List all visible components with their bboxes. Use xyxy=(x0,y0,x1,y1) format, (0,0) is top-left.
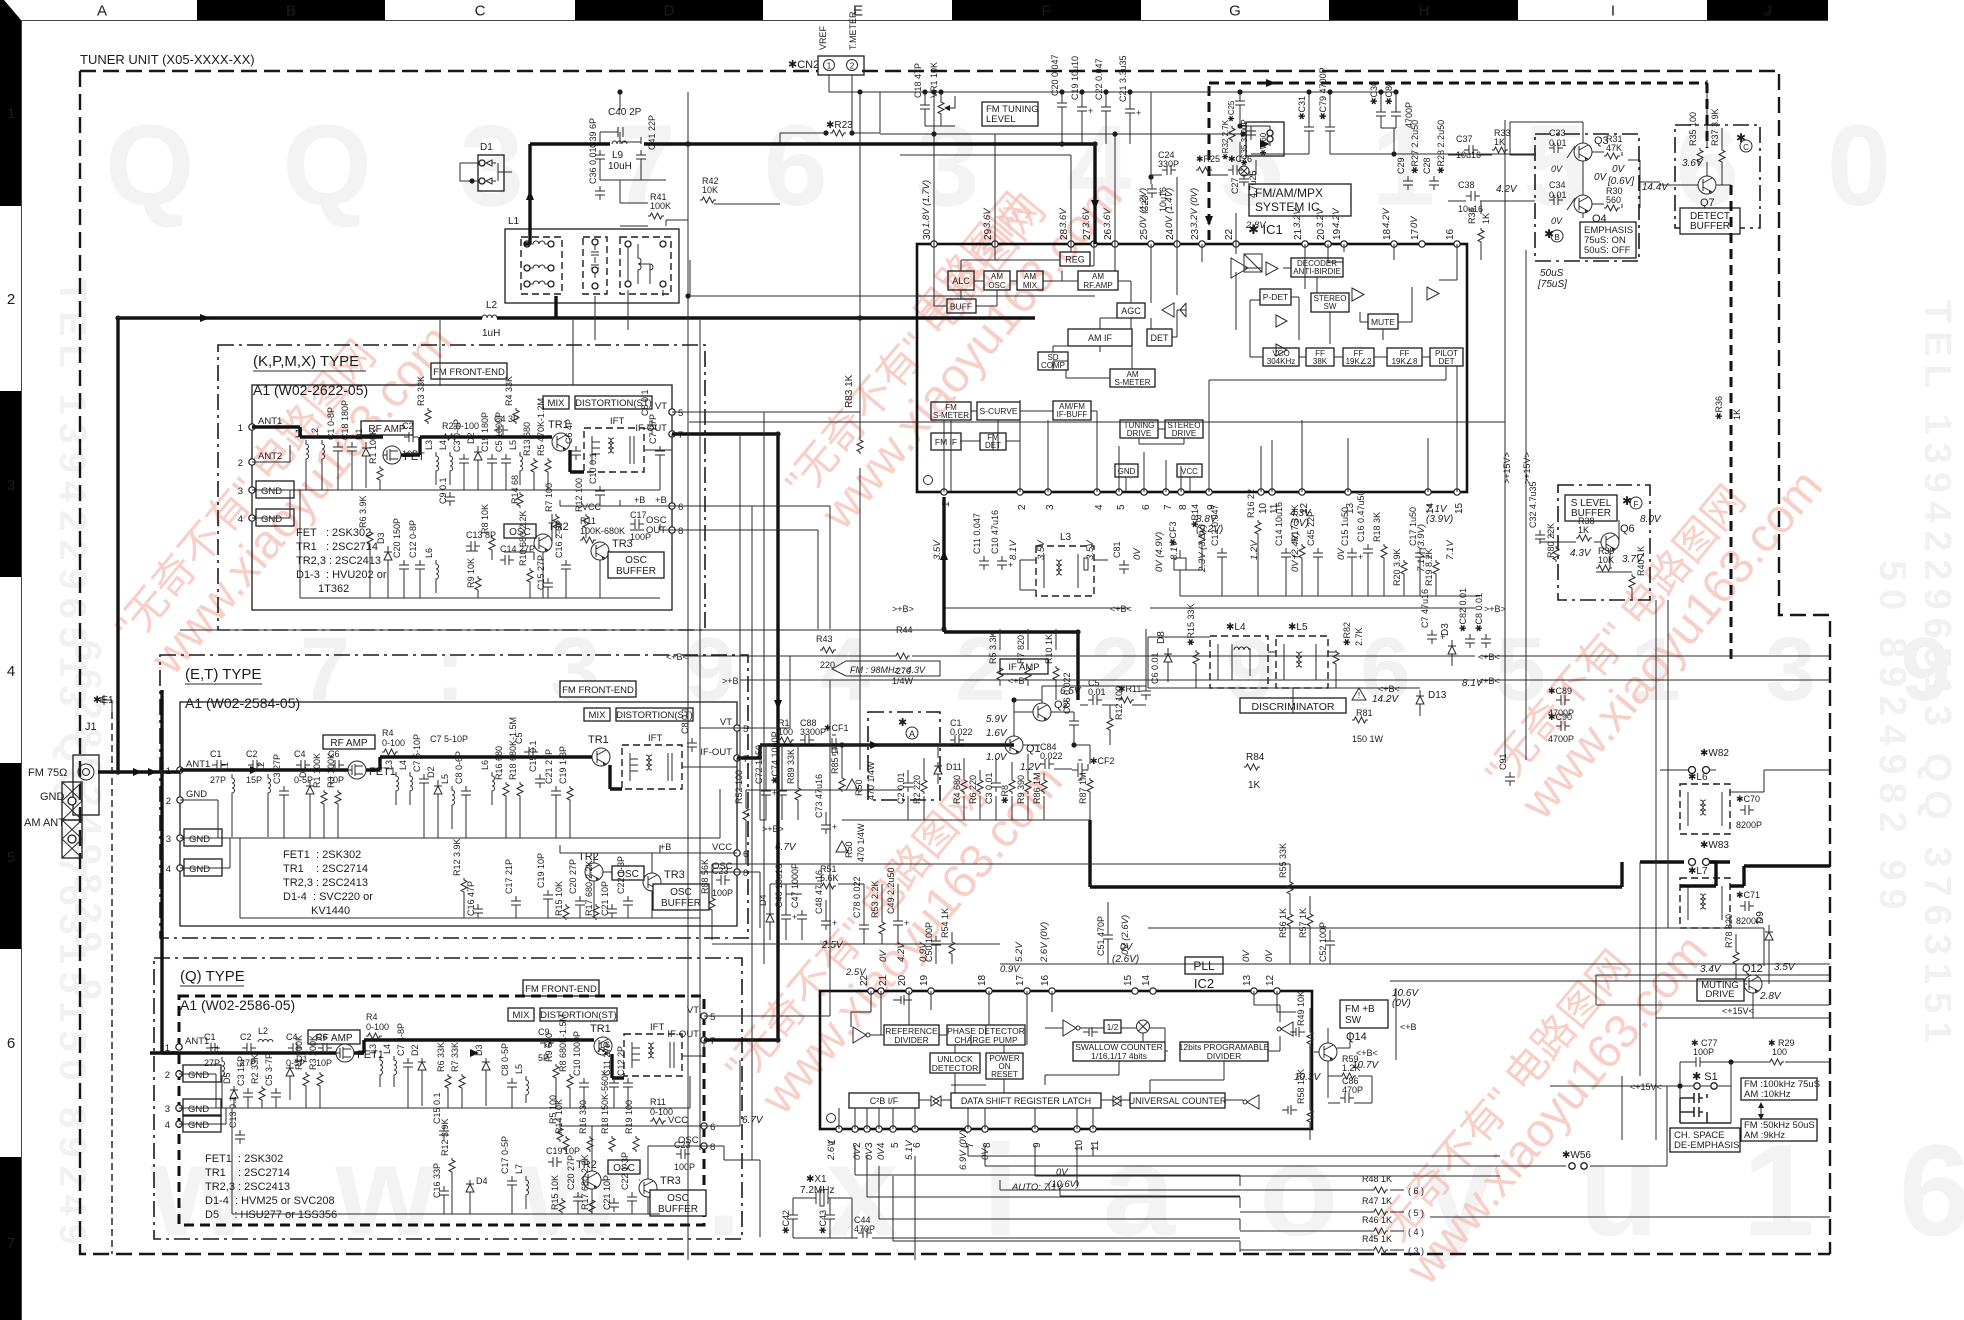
resistor R5 3.3K xyxy=(988,631,1003,682)
GND crossed connector xyxy=(62,782,82,820)
svg-text:4: 4 xyxy=(1094,504,1105,510)
filter CF2 xyxy=(1072,756,1115,780)
pin 2 xyxy=(852,1126,858,1132)
FM S-METER block xyxy=(931,402,971,420)
svg-text:C8 0-6P: C8 0-6P xyxy=(454,751,464,784)
IC1 internal blocks xyxy=(931,244,1463,492)
pin 16 xyxy=(1454,241,1460,247)
svg-text:✱C89: ✱C89 xyxy=(1548,686,1572,696)
svg-text:J1: J1 xyxy=(85,721,97,733)
resistor R19 1-3P xyxy=(558,746,573,838)
capacitor C6 10P xyxy=(328,749,344,785)
svg-text:0.022: 0.022 xyxy=(1040,751,1063,761)
svg-text:GND: GND xyxy=(188,1104,209,1115)
svg-text:470P: 470P xyxy=(854,1224,875,1234)
resistor R1 100K xyxy=(294,1035,309,1108)
amp triangle A6 xyxy=(1427,287,1439,300)
svg-text:D5: D5 xyxy=(222,1072,232,1084)
C7 47u16 xyxy=(1420,589,1445,644)
s level wires xyxy=(1540,520,1632,600)
svg-text:7: 7 xyxy=(7,1235,15,1252)
capacitor C5 3-7P xyxy=(264,1053,281,1108)
capacitor C3 15P xyxy=(236,1056,253,1108)
svg-text:L3: L3 xyxy=(424,440,434,450)
svg-text:✱C8 0.01: ✱C8 0.01 xyxy=(1474,593,1484,632)
transistor TR3 xyxy=(639,1179,657,1197)
svg-text:C²B I/F: C²B I/F xyxy=(870,1096,899,1106)
svg-text:C29: C29 xyxy=(1396,157,1406,174)
svg-text:100P: 100P xyxy=(1693,1047,1714,1057)
capacitor C42 xyxy=(781,1210,798,1234)
capacitor C3 27P xyxy=(272,754,289,838)
svg-text:0V: 0V xyxy=(878,949,889,962)
svg-text:R11: R11 xyxy=(650,1097,666,1107)
svg-text:R40 1K: R40 1K xyxy=(1636,546,1646,576)
svg-text:AM IF: AM IF xyxy=(1088,333,1113,343)
svg-text:14: 14 xyxy=(1141,974,1152,986)
svg-text:C49 2.2u50: C49 2.2u50 xyxy=(886,867,896,914)
svg-text:38K: 38K xyxy=(1313,357,1328,366)
diode D1 xyxy=(354,428,370,488)
svg-text:C19: C19 xyxy=(546,1146,563,1156)
capacitor C86 470P xyxy=(1340,1076,1363,1103)
svg-text:VT: VT xyxy=(655,401,667,412)
svg-text:AM :9kHz: AM :9kHz xyxy=(1744,1130,1785,1141)
svg-text:R5 3.3K: R5 3.3K xyxy=(988,631,998,664)
capacitor C32 4.7u35 xyxy=(1528,481,1553,544)
svg-text:C1 0-8P: C1 0-8P xyxy=(326,407,336,440)
svg-text:OSC: OSC xyxy=(670,887,692,898)
svg-text:29: 29 xyxy=(983,228,994,240)
svg-text:R52 100: R52 100 xyxy=(734,770,744,804)
svg-text:5: 5 xyxy=(710,1012,715,1023)
svg-text:C40 2P: C40 2P xyxy=(608,107,642,118)
svg-text:C23: C23 xyxy=(1140,195,1150,212)
svg-text:4: 4 xyxy=(7,663,15,680)
svg-text:4.2V: 4.2V xyxy=(1496,184,1518,195)
pin 5 xyxy=(1116,489,1122,495)
signal wires xyxy=(180,757,622,789)
svg-text:L7: L7 xyxy=(514,1164,524,1174)
svg-text:100P: 100P xyxy=(630,532,651,542)
arrows between boxes xyxy=(1760,1106,1762,1116)
UNLOCK DETECTOR block xyxy=(930,1053,980,1073)
pin 4 xyxy=(876,1126,882,1132)
C90 4700P xyxy=(1548,712,1574,744)
svg-text:3: 3 xyxy=(7,477,15,494)
svg-text:✱: ✱ xyxy=(898,717,907,729)
warning R50 xyxy=(846,779,858,790)
capacitor C17 100P xyxy=(630,510,651,542)
svg-text:0V: 0V xyxy=(1612,164,1626,175)
dashed signal line to detect buffer xyxy=(1209,83,1707,240)
resistor R43 220 xyxy=(816,634,836,670)
svg-text:MIX: MIX xyxy=(589,710,607,721)
svg-text:FM FRONT-END: FM FRONT-END xyxy=(525,984,597,995)
AGC block xyxy=(1117,303,1145,318)
mosfet symbols xyxy=(1083,1027,1098,1037)
svg-text:LEVEL: LEVEL xyxy=(986,114,1016,125)
resistor R11 100K-680K xyxy=(580,516,625,543)
svg-text:ALC: ALC xyxy=(952,276,970,286)
svg-text:0V: 0V xyxy=(1120,942,1134,953)
diode D1 xyxy=(286,1054,308,1100)
svg-text:CHARGE PUMP: CHARGE PUMP xyxy=(954,1035,1018,1045)
svg-text:1/4W: 1/4W xyxy=(892,676,914,686)
svg-text:R9 10K: R9 10K xyxy=(466,558,476,588)
svg-text:3.6V: 3.6V xyxy=(1102,207,1113,228)
DISTORTION(ST) label xyxy=(616,708,693,721)
svg-text:R15 10K: R15 10K xyxy=(550,1175,560,1210)
pin 13 xyxy=(1251,988,1257,994)
svg-text:RF.AMP: RF.AMP xyxy=(1083,281,1112,290)
svg-text:26: 26 xyxy=(1103,228,1114,240)
svg-text:C4: C4 xyxy=(294,749,306,759)
svg-text:L3: L3 xyxy=(368,1044,378,1054)
svg-text:R14 68: R14 68 xyxy=(510,475,520,504)
svg-text:ANTI-BIRDIE: ANTI-BIRDIE xyxy=(1293,267,1341,276)
svg-text:R17 680-2.2K: R17 680-2.2K xyxy=(584,860,594,916)
svg-text:R18 680K-1.5M: R18 680K-1.5M xyxy=(508,717,518,780)
svg-text:3.4V: 3.4V xyxy=(1700,964,1722,975)
svg-text:8: 8 xyxy=(678,526,683,537)
svg-text:2: 2 xyxy=(1017,504,1028,510)
svg-text:19K∠2: 19K∠2 xyxy=(1346,357,1372,366)
OSC label xyxy=(612,866,644,880)
inverter T1 xyxy=(853,1027,870,1043)
svg-text:P-DET: P-DET xyxy=(1263,292,1289,302)
svg-text:20: 20 xyxy=(1316,228,1327,240)
svg-text:10P: 10P xyxy=(316,1058,332,1068)
pin 7 xyxy=(965,1126,971,1132)
svg-text:(K,P,M,X) TYPE: (K,P,M,X) TYPE xyxy=(253,353,359,370)
svg-text:3.5V: 3.5V xyxy=(1036,539,1047,560)
svg-text:R10 680-2.2K: R10 680-2.2K xyxy=(518,510,528,566)
transistor TR1 xyxy=(592,748,610,766)
svg-text:4.7u25: 4.7u25 xyxy=(1248,170,1258,198)
svg-text:9: 9 xyxy=(1032,1142,1043,1148)
VCO 304KHz block xyxy=(1263,348,1299,366)
svg-text:✱: ✱ xyxy=(1544,227,1554,241)
svg-text:(3.9V): (3.9V) xyxy=(1426,514,1453,525)
resistor R6 3.9K xyxy=(358,495,373,598)
signal wires xyxy=(150,1040,624,1078)
resistor R15 10K xyxy=(550,1175,565,1214)
VCC +B line xyxy=(560,845,737,853)
svg-text:✱C25: ✱C25 xyxy=(1227,100,1236,122)
OSC label xyxy=(608,1160,640,1174)
pin 22 xyxy=(868,988,874,994)
C26 xyxy=(1228,154,1252,175)
IF AMP label xyxy=(1000,659,1048,674)
svg-text:L1: L1 xyxy=(294,428,304,438)
svg-text:R57 1K: R57 1K xyxy=(1298,908,1308,938)
svg-text:BUFF: BUFF xyxy=(950,302,972,312)
svg-text:GND: GND xyxy=(1118,467,1136,476)
capacitor C19 10u10 xyxy=(1070,56,1093,116)
svg-text:0.01: 0.01 xyxy=(1088,687,1106,697)
resistor R7 820 xyxy=(1016,635,1031,682)
pin 9 xyxy=(1206,489,1212,495)
pin VT 5 xyxy=(669,409,675,415)
pin 3 GND xyxy=(249,487,255,493)
resistor R17 680-2.2K xyxy=(580,1154,595,1214)
svg-text:( 5 ): ( 5 ) xyxy=(1408,1208,1424,1218)
capacitor C5 1000P inline xyxy=(514,732,538,757)
svg-text:R87 1M: R87 1M xyxy=(1078,772,1088,804)
inductor L3 xyxy=(424,440,439,485)
svg-text:0V: 0V xyxy=(1594,172,1608,183)
transistor TR2 xyxy=(585,863,603,881)
resistor R12 100 xyxy=(1107,686,1124,732)
svg-text:2: 2 xyxy=(7,291,15,308)
svg-text:C12 2P: C12 2P xyxy=(616,1046,626,1076)
svg-text:5.9V: 5.9V xyxy=(986,714,1008,725)
R51 5.6K xyxy=(820,864,839,889)
pin IF-OUT 7 xyxy=(701,1037,707,1043)
resistor R5 470K-1.2M xyxy=(536,398,551,490)
svg-text:C48 47u16: C48 47u16 xyxy=(814,870,824,914)
capacitor C15 27P xyxy=(536,555,553,598)
inverter T2 xyxy=(1063,1020,1080,1036)
resistor R46 1K xyxy=(1362,1215,1392,1234)
svg-text:1K: 1K xyxy=(1248,780,1261,791)
svg-text:R1 100K: R1 100K xyxy=(294,1035,304,1070)
svg-text:100P: 100P xyxy=(674,1162,695,1172)
svg-text:( 6 ): ( 6 ) xyxy=(1408,1186,1424,1196)
svg-text:2.8V: 2.8V xyxy=(1759,991,1782,1002)
svg-text:15: 15 xyxy=(1454,502,1465,514)
svg-text:3: 3 xyxy=(166,834,171,845)
Q IF-OUT joins vertical bus xyxy=(775,1037,780,1042)
svg-text:VR1 10K: VR1 10K xyxy=(929,62,939,98)
inductor L2 xyxy=(256,762,271,837)
pin 19 xyxy=(1341,241,1347,247)
AUTO label wire xyxy=(1000,1180,1240,1190)
C51 470P xyxy=(1096,916,1113,956)
svg-text:C20 27P: C20 27P xyxy=(568,859,578,894)
C74 1000P xyxy=(770,731,787,800)
svg-text:IFT: IFT xyxy=(650,1022,664,1033)
svg-text:5: 5 xyxy=(678,408,683,419)
svg-text:5: 5 xyxy=(7,849,15,866)
FM FRONT-END label xyxy=(523,980,599,996)
capacitor C21 10P xyxy=(600,881,617,918)
pin 17 xyxy=(1419,241,1425,247)
svg-text:S-METER: S-METER xyxy=(933,411,969,420)
capacitor C21 10P xyxy=(602,1175,619,1212)
svg-text:BUFFER: BUFFER xyxy=(661,898,701,909)
svg-text:L9: L9 xyxy=(612,150,624,161)
svg-text:F: F xyxy=(1634,500,1639,509)
resistor R42 10K xyxy=(700,176,719,203)
svg-text:5: 5 xyxy=(743,724,748,735)
RF AMP label xyxy=(308,1030,360,1044)
svg-text:1.2K: 1.2K xyxy=(1342,1063,1361,1073)
capacitor C16 47P xyxy=(466,881,483,918)
svg-text:R5 470K-1.2M: R5 470K-1.2M xyxy=(536,398,546,456)
FM 50kHz box xyxy=(1741,1119,1817,1141)
diode D2 xyxy=(426,766,442,838)
svg-text:S-CURVE: S-CURVE xyxy=(979,406,1017,416)
resistor R3 33K xyxy=(416,376,431,424)
svg-text:GND: GND xyxy=(186,789,207,800)
svg-text:R80 22K: R80 22K xyxy=(1546,523,1556,558)
resistor R18 680K-1.5M xyxy=(508,717,523,838)
IC1 FM/AM/MPX SYSTEM IC label xyxy=(1249,184,1351,216)
svg-text:R18 3K: R18 3K xyxy=(1372,512,1382,542)
R89 33K xyxy=(786,749,801,802)
pin 17 xyxy=(1024,988,1030,994)
svg-text:L3: L3 xyxy=(384,760,394,770)
capacitor C15 0.1 xyxy=(528,740,545,788)
svg-text:27P: 27P xyxy=(204,1058,220,1068)
R87 1M xyxy=(1078,772,1093,804)
svg-text:C28: C28 xyxy=(1422,157,1432,174)
svg-text:D11: D11 xyxy=(946,762,962,772)
svg-text:47K: 47K xyxy=(1606,143,1622,153)
C38 10u16 xyxy=(1458,180,1483,214)
svg-text:(0V): (0V) xyxy=(1290,518,1309,529)
C28 R28 2.2u50 xyxy=(1422,120,1446,190)
FM FRONT-END label xyxy=(560,681,636,697)
svg-text:14.2V: 14.2V xyxy=(1372,694,1399,705)
second feed vertical thick xyxy=(162,690,179,1053)
capacitor C18 180P xyxy=(340,400,357,490)
svg-text:R84: R84 xyxy=(1246,752,1265,763)
capacitor C77 100P xyxy=(1691,1038,1718,1067)
IC2 body xyxy=(820,991,1312,1129)
OSC BUFFER label xyxy=(653,884,709,910)
svg-text:C3 0.01: C3 0.01 xyxy=(984,772,994,804)
pin 4 GND xyxy=(249,515,255,521)
pin 5 xyxy=(890,1126,896,1132)
pin 29 xyxy=(992,241,998,247)
DISCRIMINATOR label xyxy=(1240,698,1346,713)
svg-text:DRIVE: DRIVE xyxy=(1172,429,1196,438)
svg-text:R6 220: R6 220 xyxy=(968,775,978,804)
svg-text:D1: D1 xyxy=(298,766,308,778)
svg-text:DETECTOR: DETECTOR xyxy=(932,1063,979,1073)
warning triangle R50 xyxy=(836,841,848,852)
svg-text:PLL: PLL xyxy=(1193,959,1215,973)
STEREO SW block xyxy=(1311,293,1349,312)
svg-text:C50 100P: C50 100P xyxy=(924,922,934,962)
svg-text:R19 100: R19 100 xyxy=(624,1100,634,1134)
svg-text:+: + xyxy=(832,918,837,928)
svg-text:24: 24 xyxy=(1165,228,1176,240)
svg-text:DET: DET xyxy=(1151,333,1170,343)
svg-text:TR1: TR1 xyxy=(588,734,609,746)
TUNING DRIVE block xyxy=(1120,420,1158,438)
svg-text:Q14: Q14 xyxy=(1346,1031,1367,1043)
svg-text:R49 10K: R49 10K xyxy=(1296,991,1306,1026)
svg-text:1K: 1K xyxy=(1494,137,1505,147)
pin 21 xyxy=(1302,241,1308,247)
svg-text:GND: GND xyxy=(40,791,65,803)
resistor R2 0-100 top xyxy=(430,734,468,744)
C11 0.047 xyxy=(972,513,989,570)
svg-text:R4 680: R4 680 xyxy=(952,775,962,804)
pin 6 xyxy=(1141,489,1147,495)
svg-text:R7 100: R7 100 xyxy=(544,483,554,512)
pin 14 xyxy=(1425,489,1431,495)
svg-text:TR3: TR3 xyxy=(660,1175,681,1187)
svg-text:[75uS]: [75uS] xyxy=(1537,279,1567,290)
MUTING DRIVE label xyxy=(1697,979,1744,1001)
svg-text:D4: D4 xyxy=(476,1176,488,1186)
resistor R4 0-100 xyxy=(382,728,405,755)
capacitor C43 xyxy=(818,1210,835,1234)
svg-text:304KHz: 304KHz xyxy=(1267,357,1295,366)
svg-text:C7 5-10P: C7 5-10P xyxy=(430,734,468,744)
svg-text:✱R27 2.2u50: ✱R27 2.2u50 xyxy=(1410,120,1420,174)
svg-text:R46 1K: R46 1K xyxy=(1362,1215,1392,1225)
capacitor C84 0.022 xyxy=(1040,742,1063,769)
svg-text:D1-4 : SVC220 or: D1-4 : SVC220 or xyxy=(283,891,373,903)
capacitor C17 0-5P xyxy=(500,1136,517,1214)
AM OSC block xyxy=(984,271,1010,290)
svg-text:DRIVE: DRIVE xyxy=(1705,989,1734,1000)
svg-text:TR3: TR3 xyxy=(664,869,685,881)
svg-text:6.7V: 6.7V xyxy=(742,1115,764,1126)
resistor R3 100K xyxy=(326,753,341,838)
svg-text:<+B: <+B xyxy=(1008,676,1025,686)
resistor R47 1K xyxy=(1362,1196,1392,1215)
svg-text:J: J xyxy=(1764,3,1772,20)
svg-text:✱C71: ✱C71 xyxy=(1736,890,1760,900)
inductor L5 xyxy=(514,1064,529,1103)
svg-text:R16 330: R16 330 xyxy=(578,1100,588,1134)
long verticals from top area xyxy=(440,92,620,385)
svg-text:10: 10 xyxy=(1258,502,1269,514)
svg-text:4700P: 4700P xyxy=(1548,734,1574,744)
FM +B SW label xyxy=(1340,1000,1388,1028)
long verticals left of IC2 xyxy=(688,92,764,1260)
L1 transformer section a xyxy=(521,237,562,294)
svg-text:SW: SW xyxy=(1324,302,1337,311)
svg-text:✱R25: ✱R25 xyxy=(1196,154,1220,164)
R14 xyxy=(1190,504,1205,546)
svg-text:2: 2 xyxy=(850,62,855,71)
amp triangle A5 xyxy=(1352,288,1364,301)
transistor Q7 xyxy=(1698,176,1716,194)
svg-text:R85 1M: R85 1M xyxy=(830,742,840,774)
svg-text:100P: 100P xyxy=(712,888,733,898)
svg-text:A1 (W02-2584-05): A1 (W02-2584-05) xyxy=(185,695,300,711)
svg-text:R37 3.9K: R37 3.9K xyxy=(1710,108,1720,146)
svg-text:L4: L4 xyxy=(382,1044,392,1054)
K IF-OUT bus down xyxy=(672,434,778,1040)
diode D3 xyxy=(376,532,392,598)
IC2 internal wires xyxy=(839,991,1296,1129)
resistor R14 10K xyxy=(554,1099,569,1152)
svg-text:C13 0.1: C13 0.1 xyxy=(228,1096,238,1128)
svg-text:L6: L6 xyxy=(480,760,490,770)
D4 xyxy=(758,894,774,932)
VCC line xyxy=(560,1118,704,1126)
svg-text:7.2MHz: 7.2MHz xyxy=(800,1185,834,1196)
R25 xyxy=(1196,154,1220,173)
inductor L5 xyxy=(508,440,523,485)
transistor TR1 xyxy=(552,433,570,451)
svg-text:1.6V: 1.6V xyxy=(986,728,1008,739)
svg-text:>+15V>: >+15V> xyxy=(1502,452,1512,484)
svg-text:✱ S1: ✱ S1 xyxy=(1692,1071,1718,1083)
amp triangle A3 xyxy=(1276,315,1287,327)
Q block VT wires xyxy=(704,680,830,1237)
C48 47u16 xyxy=(814,870,837,930)
